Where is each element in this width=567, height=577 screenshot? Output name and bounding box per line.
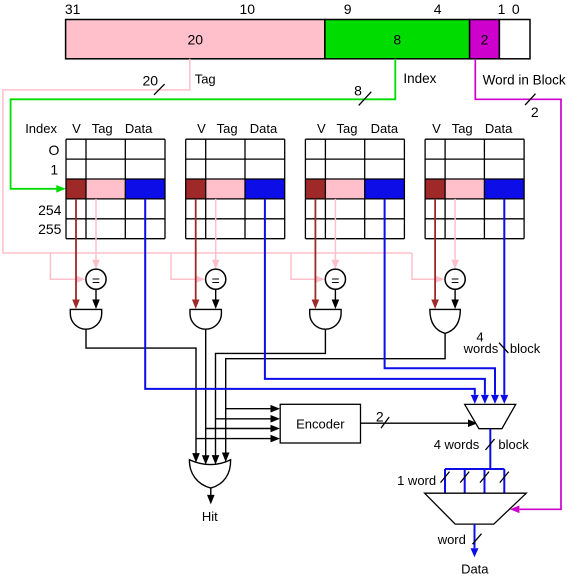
- svg-text:Index: Index: [25, 121, 57, 136]
- svg-text:1: 1: [50, 162, 58, 178]
- svg-text:Word in Block: Word in Block: [483, 73, 566, 88]
- svg-text:Data: Data: [461, 561, 489, 576]
- svg-text:254: 254: [38, 202, 62, 218]
- svg-text:Data: Data: [125, 121, 153, 136]
- svg-text:=: =: [451, 273, 459, 289]
- svg-text:=: =: [331, 273, 339, 289]
- svg-text:V: V: [317, 121, 326, 136]
- svg-text:V: V: [432, 121, 441, 136]
- svg-text:1 word: 1 word: [397, 473, 436, 488]
- svg-text:Tag: Tag: [92, 121, 113, 136]
- svg-text:block: block: [498, 437, 529, 452]
- svg-text:Hit: Hit: [202, 509, 218, 524]
- svg-text:4: 4: [434, 1, 442, 17]
- svg-text:10: 10: [240, 1, 256, 17]
- svg-text:8: 8: [354, 82, 362, 98]
- svg-text:20: 20: [188, 32, 204, 48]
- svg-text:Data: Data: [371, 121, 399, 136]
- svg-text:=: =: [92, 273, 100, 289]
- svg-text:0: 0: [512, 1, 520, 17]
- svg-text:1: 1: [498, 1, 506, 17]
- svg-text:Encoder: Encoder: [296, 417, 345, 432]
- svg-text:V: V: [72, 121, 81, 136]
- svg-text:Tag: Tag: [217, 121, 238, 136]
- svg-text:V: V: [197, 121, 206, 136]
- svg-text:255: 255: [38, 221, 62, 237]
- svg-text:2: 2: [531, 104, 539, 120]
- svg-text:Tag: Tag: [452, 121, 473, 136]
- svg-text:4 words: 4 words: [434, 437, 480, 452]
- svg-text:2: 2: [376, 409, 384, 425]
- svg-text:Index: Index: [403, 71, 436, 86]
- svg-text:O: O: [49, 142, 60, 158]
- svg-text:Data: Data: [250, 121, 278, 136]
- svg-text:block: block: [510, 341, 541, 356]
- svg-text:8: 8: [393, 32, 401, 48]
- svg-text:Tag: Tag: [195, 72, 216, 87]
- svg-text:=: =: [212, 273, 220, 289]
- svg-text:word: word: [437, 532, 466, 547]
- svg-text:31: 31: [65, 1, 81, 17]
- svg-text:words: words: [463, 341, 499, 356]
- svg-text:Tag: Tag: [337, 121, 358, 136]
- svg-text:20: 20: [143, 72, 159, 88]
- svg-text:Data: Data: [485, 121, 513, 136]
- svg-text:9: 9: [344, 1, 352, 17]
- svg-text:2: 2: [481, 32, 489, 48]
